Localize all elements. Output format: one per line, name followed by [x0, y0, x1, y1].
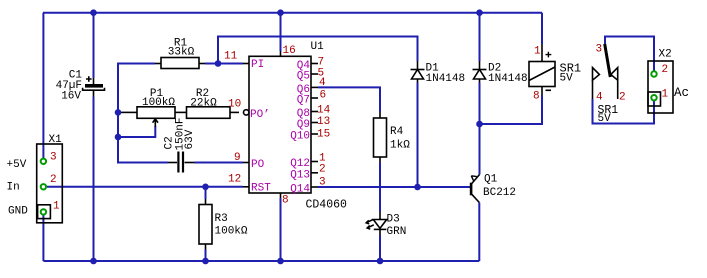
svg-text:Q12: Q12: [290, 158, 310, 170]
connector X2: [648, 49, 689, 114]
svg-text:2: 2: [619, 92, 626, 104]
node junction top pin16: [277, 9, 284, 16]
pin RST 12: [228, 174, 271, 195]
IC U1 CD4060: [249, 41, 347, 212]
pin Q7 6: [297, 90, 326, 107]
resistor R4: [374, 112, 411, 163]
svg-text:10: 10: [228, 99, 241, 111]
pin Q10 15: [290, 129, 330, 143]
svg-text:100kΩ: 100kΩ: [215, 226, 248, 238]
relay coil SR1: [529, 44, 581, 103]
pin PI 11: [224, 51, 264, 72]
svg-text:14: 14: [317, 105, 331, 117]
svg-text:16: 16: [283, 45, 296, 57]
svg-text:1: 1: [53, 201, 60, 213]
LED D3 GRN: [366, 212, 406, 239]
svg-text:6: 6: [320, 90, 327, 102]
svg-text:3: 3: [596, 44, 603, 56]
pin 8 GND of U1: [281, 193, 289, 207]
wire left drop to X1 pin 3: [42, 13, 44, 159]
wire R4 to D3: [379, 163, 381, 212]
pin Q5 5: [297, 68, 324, 83]
svg-text:CD4060: CD4060: [306, 199, 348, 212]
wire R1 left net: [118, 64, 168, 163]
wire R3 bottom lead: [205, 250, 207, 262]
pin Q8 14: [297, 105, 331, 121]
X1 pin 2: [7, 174, 57, 194]
wire U1 pin16 drop: [280, 13, 282, 51]
capacitor C2: [164, 117, 197, 172]
connector X1: [37, 134, 63, 223]
node junction R3 top: [202, 184, 209, 191]
svg-text:3: 3: [50, 152, 57, 164]
wire SR1 coil pin1 drop: [541, 13, 543, 44]
svg-text:2: 2: [319, 164, 326, 176]
transistor Q1 BC212: [470, 174, 516, 203]
node junction rail D3: [377, 258, 384, 265]
svg-text:X2: X2: [659, 49, 672, 61]
svg-text:Ac: Ac: [674, 86, 689, 100]
svg-text:1: 1: [662, 89, 669, 101]
svg-text:X1: X1: [49, 134, 63, 146]
svg-text:Q10: Q10: [290, 131, 310, 143]
node junction rail R3: [202, 258, 209, 265]
resistor R3: [199, 199, 248, 250]
X1 pin 3: [7, 152, 57, 172]
wire C1 top lead: [93, 13, 95, 78]
wire R1 right to PI pin 11: [205, 63, 243, 65]
pin Q13 2: [290, 164, 325, 182]
node junction top D2: [476, 9, 483, 16]
svg-text:1N4148: 1N4148: [426, 73, 466, 85]
node junction rail C1: [90, 258, 97, 265]
capacitor C1: [56, 70, 105, 103]
wire Q1 emitter top: [479, 124, 481, 175]
resistor R2: [175, 88, 239, 118]
svg-text:100kΩ: 100kΩ: [142, 97, 175, 109]
svg-text:BC212: BC212: [483, 187, 516, 199]
svg-text:U1: U1: [311, 41, 325, 53]
svg-text:13: 13: [317, 116, 330, 128]
svg-text:PI: PI: [251, 59, 264, 71]
svg-text:Q13: Q13: [290, 169, 310, 181]
svg-text:2: 2: [50, 174, 57, 186]
svg-text:Q14: Q14: [290, 184, 310, 196]
wire Q6 pin4 to R4: [318, 87, 380, 112]
pin Q14 3: [290, 177, 325, 196]
svg-text:R3: R3: [215, 213, 228, 225]
resistor R1: [155, 38, 205, 69]
svg-text:RST: RST: [251, 183, 271, 195]
svg-text:1: 1: [534, 46, 541, 58]
svg-text:GND: GND: [8, 206, 28, 218]
svg-text:2: 2: [662, 64, 669, 76]
svg-text:3: 3: [319, 177, 326, 189]
wire C1 bottom lead: [93, 97, 95, 262]
wire D2 top drop: [479, 13, 481, 61]
svg-text:15: 15: [317, 129, 330, 141]
wire D3 to GND rail: [379, 235, 381, 261]
wire P1 wiper net: [118, 126, 155, 137]
svg-text:5V: 5V: [598, 113, 612, 125]
svg-text:R4: R4: [390, 126, 404, 138]
svg-text:Q9: Q9: [297, 119, 310, 131]
wire Q1 collector to GND rail: [478, 203, 480, 262]
diode D1 1N4148: [411, 61, 466, 85]
wire PO pin 9: [195, 162, 244, 164]
wire bottom GND rail: [43, 260, 479, 262]
node junction rail pin8: [277, 258, 284, 265]
diode D2 1N4148: [473, 61, 528, 85]
svg-text:5V: 5V: [560, 73, 574, 85]
svg-text:11: 11: [224, 51, 238, 63]
svg-text:63V: 63V: [184, 129, 196, 149]
node junction top C1: [90, 9, 97, 16]
svg-text:9: 9: [234, 152, 241, 164]
svg-text:4: 4: [319, 77, 326, 89]
pin PO 9: [234, 152, 265, 171]
node junction D1 base: [414, 184, 421, 191]
svg-text:In: In: [7, 182, 20, 194]
svg-text:GRN: GRN: [387, 226, 407, 238]
X2 pin 2: [651, 64, 668, 77]
svg-text:8: 8: [282, 195, 289, 207]
svg-text:1N4148: 1N4148: [488, 73, 528, 85]
wire X1 pin1 to GND rail: [42, 215, 44, 261]
svg-text:Q1: Q1: [484, 174, 498, 186]
svg-text:Q7: Q7: [297, 95, 310, 107]
wire Q14 pin3 to Q1 base: [318, 186, 470, 188]
X2 pin 1: [651, 89, 668, 101]
svg-text:8: 8: [533, 91, 540, 103]
svg-text:Q5: Q5: [297, 71, 310, 83]
wire SR1 coil pin8 net: [480, 96, 543, 125]
svg-text:PO: PO: [251, 159, 265, 171]
pin Q4 7: [297, 57, 324, 73]
node junction pin11: [215, 60, 222, 67]
node junction P1 wiper: [115, 134, 122, 141]
wire PI riser to y36: [218, 37, 418, 64]
svg-text:1kΩ: 1kΩ: [390, 140, 410, 152]
node junction D2 relay Q1: [476, 121, 483, 128]
wire U1 pin8 to GND: [280, 198, 282, 261]
wire switch pin3 to X2 pin2: [605, 37, 654, 72]
wire switch pin4 to X2 pin1: [593, 99, 655, 124]
relay switch SR1 contacts: [593, 44, 626, 126]
wire D1 bottom lead: [417, 83, 419, 188]
svg-text:4: 4: [596, 92, 603, 104]
svg-text:33kΩ: 33kΩ: [168, 47, 195, 59]
svg-text:16V: 16V: [61, 91, 81, 103]
pin Q12 1: [290, 153, 326, 171]
wire In to RST pin 12: [47, 186, 243, 188]
wire top +5V rail: [43, 12, 542, 14]
svg-text:22kΩ: 22kΩ: [190, 98, 217, 110]
pin Q9 13: [297, 116, 330, 131]
wire R3 top lead: [205, 187, 207, 199]
pin Q6 4: [297, 77, 326, 96]
pin PO' 10: [228, 99, 270, 122]
X1 pin 1: [8, 201, 60, 218]
svg-text:PO’: PO’: [250, 109, 270, 121]
svg-text:12: 12: [228, 174, 241, 186]
svg-text:D3: D3: [387, 214, 400, 226]
potentiometer P1: [121, 88, 175, 127]
svg-text:+5V: +5V: [7, 159, 27, 171]
pin 16: [281, 45, 296, 57]
wire D2 bottom lead: [479, 83, 481, 125]
node junction P1 left: [115, 109, 122, 116]
